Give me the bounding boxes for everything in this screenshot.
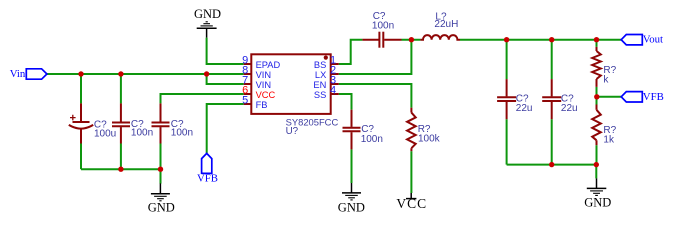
svg-text:5: 5 [242, 94, 248, 106]
svg-text:1k: 1k [603, 134, 615, 145]
svg-text:LX: LX [315, 70, 326, 80]
svg-text:VIN: VIN [256, 70, 272, 80]
svg-text:VCC: VCC [256, 90, 276, 100]
svg-text:U?: U? [286, 126, 299, 137]
svg-text:100u: 100u [94, 128, 116, 139]
svg-text:100n: 100n [171, 128, 193, 139]
svg-text:GND: GND [584, 196, 611, 210]
svg-text:100n: 100n [131, 128, 153, 139]
svg-text:Vout: Vout [643, 34, 663, 46]
svg-text:GND: GND [338, 201, 365, 215]
svg-text:FB: FB [256, 100, 268, 110]
svg-text:VCC: VCC [396, 196, 427, 211]
svg-text:VFB: VFB [197, 172, 218, 184]
svg-text:EPAD: EPAD [256, 60, 281, 70]
svg-text:VIN: VIN [256, 80, 272, 90]
svg-text:100n: 100n [361, 134, 383, 145]
svg-text:22u: 22u [516, 103, 533, 114]
svg-text:22u: 22u [561, 103, 578, 114]
svg-text:4: 4 [330, 84, 336, 96]
svg-text:GND: GND [194, 7, 221, 21]
svg-text:GND: GND [148, 200, 175, 214]
svg-text:BS: BS [314, 60, 326, 70]
svg-text:SS: SS [314, 90, 326, 100]
svg-text:100n: 100n [372, 20, 394, 31]
svg-text:Vin: Vin [10, 68, 26, 80]
svg-text:100k: 100k [418, 133, 441, 144]
svg-text:EN: EN [313, 80, 326, 90]
svg-text:VFB: VFB [643, 91, 664, 103]
svg-text:22uH: 22uH [434, 19, 458, 30]
